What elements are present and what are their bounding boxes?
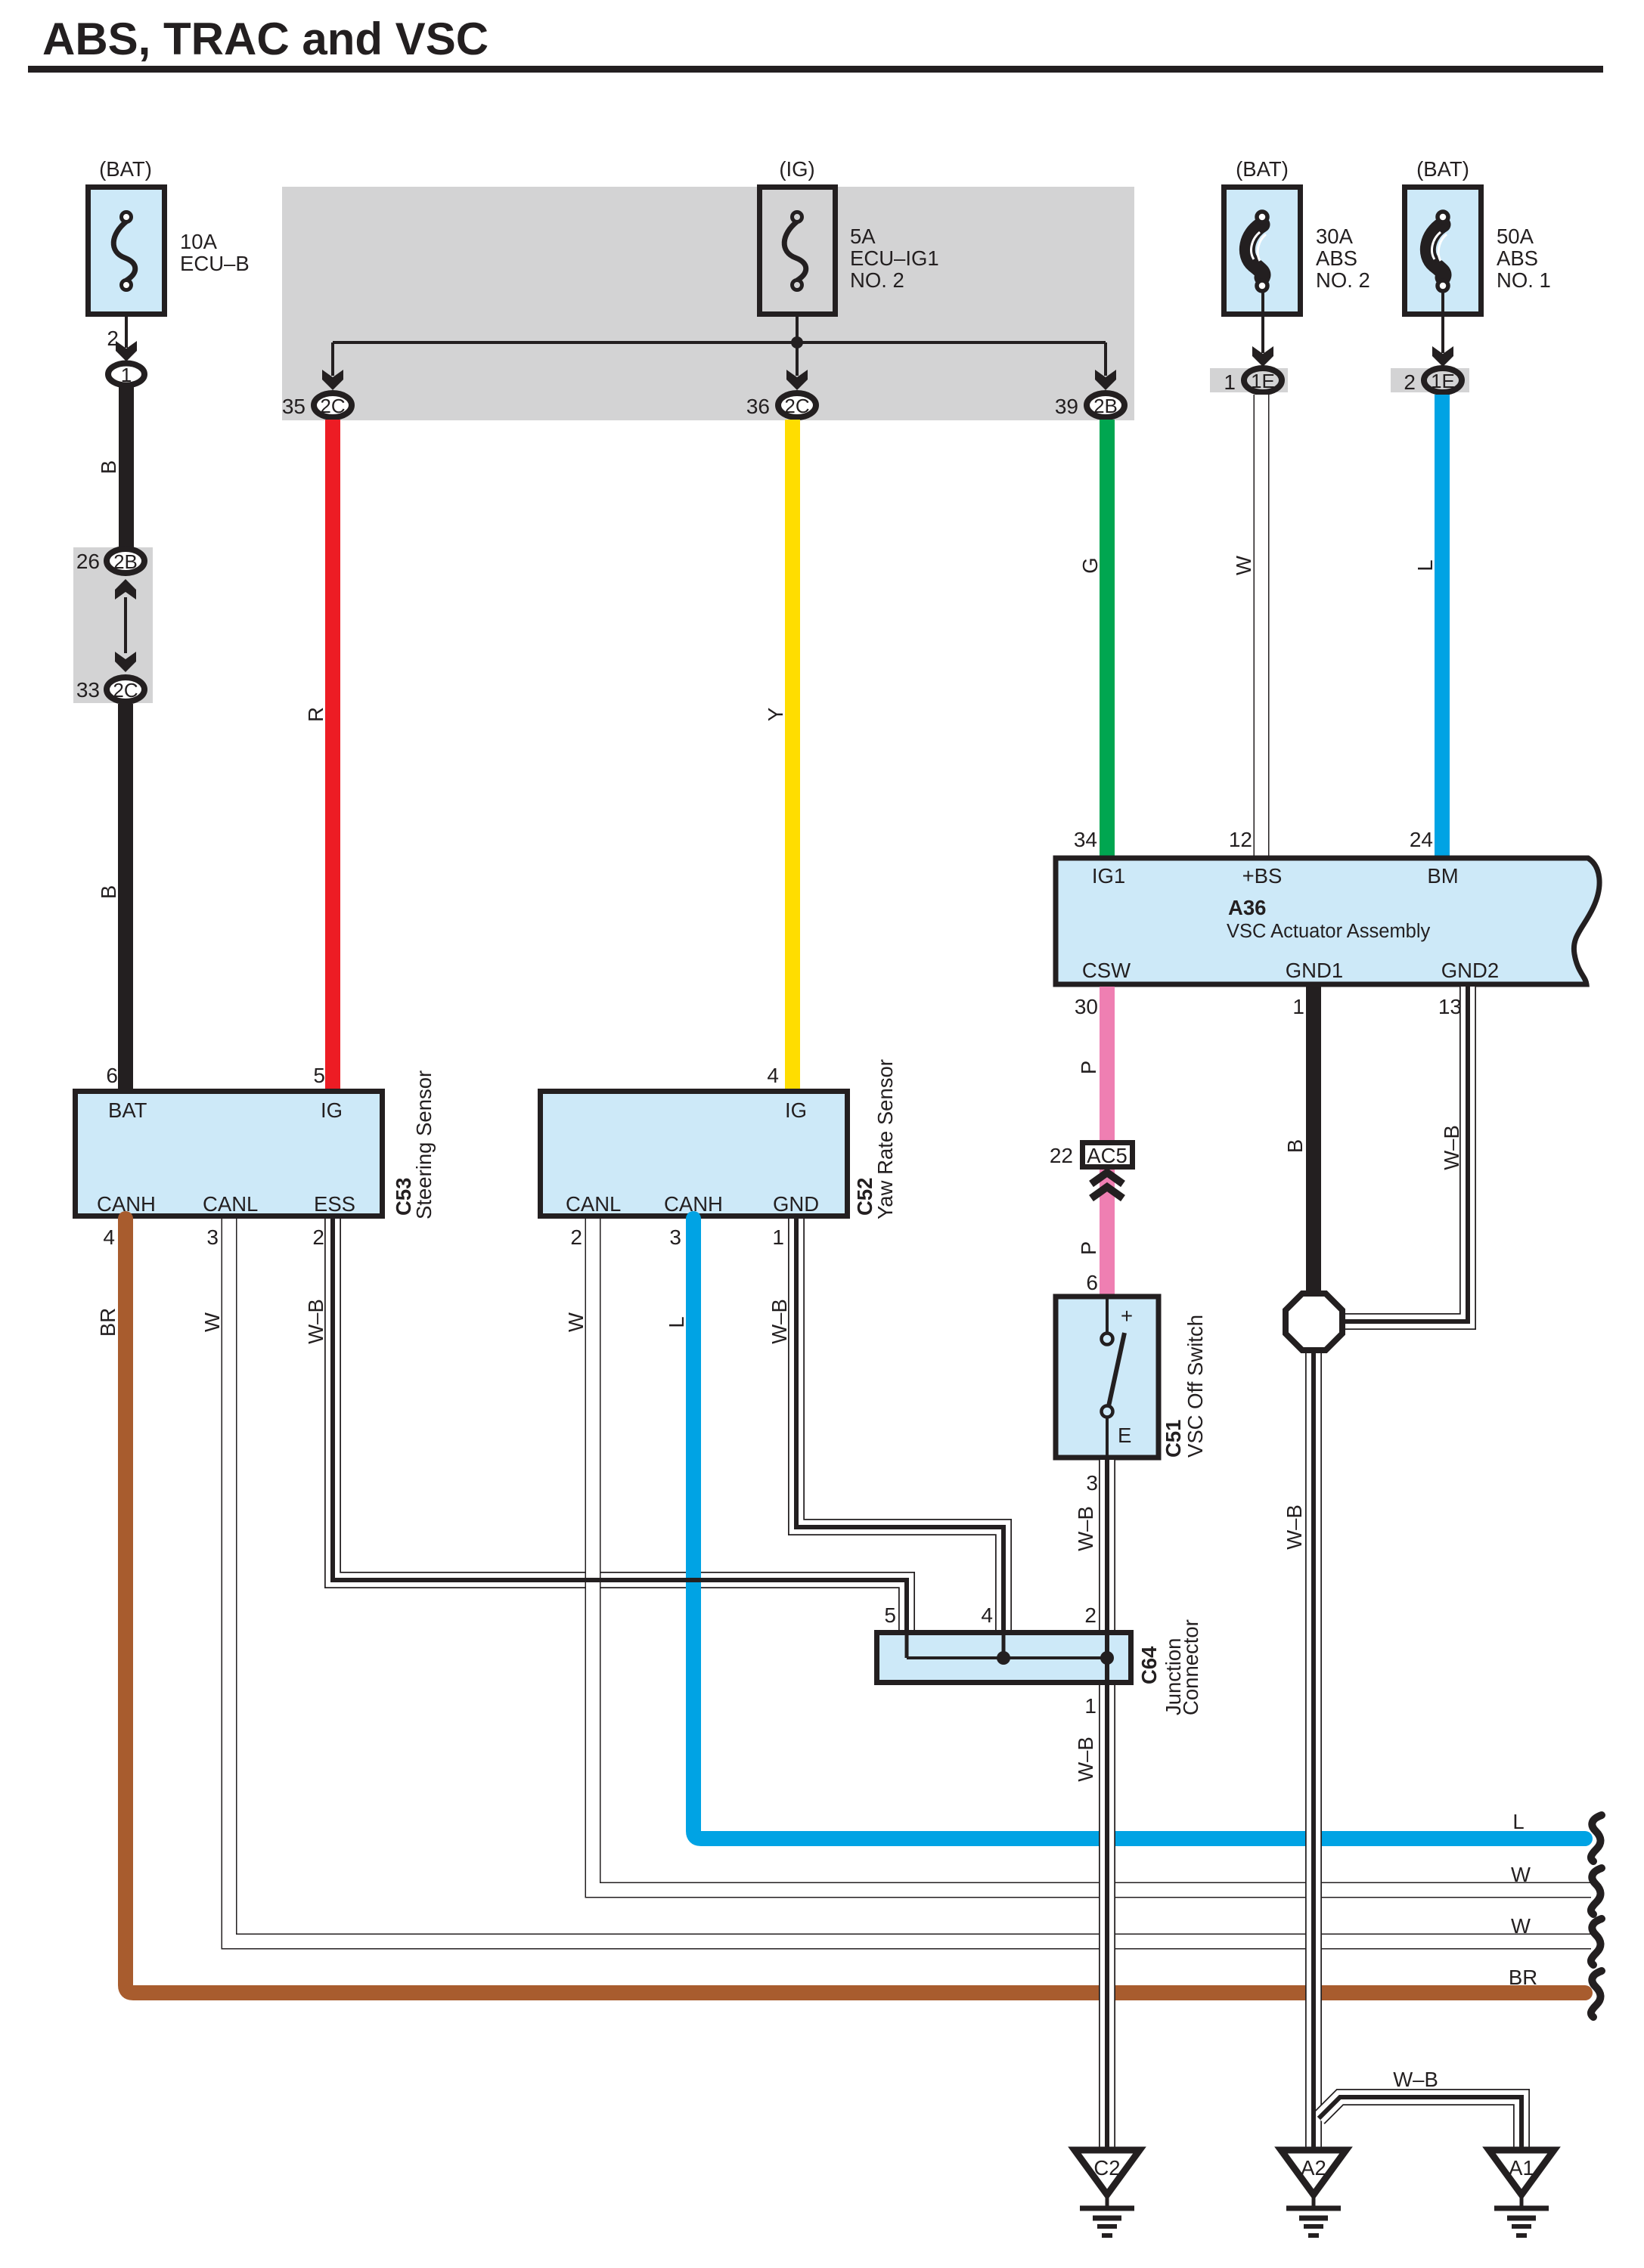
svg-text:3: 3 bbox=[1086, 1471, 1098, 1495]
svg-text:W–B: W–B bbox=[1074, 1737, 1097, 1782]
fusible link 30A ABS NO.2 bbox=[1224, 187, 1301, 314]
svg-text:5A: 5A bbox=[850, 225, 876, 248]
svg-text:R: R bbox=[304, 707, 327, 722]
connector 2B (ellipse) bbox=[107, 549, 144, 573]
re-stroke W-B centers over crossings bbox=[333, 1578, 907, 1582]
svg-text:2: 2 bbox=[312, 1225, 324, 1249]
svg-text:P: P bbox=[1077, 1241, 1100, 1255]
svg-text:W–B: W–B bbox=[1074, 1506, 1097, 1551]
svg-text:W: W bbox=[564, 1312, 588, 1332]
svg-text:39: 39 bbox=[1055, 395, 1078, 418]
svg-text:4: 4 bbox=[981, 1603, 993, 1627]
break squiggle on L bus bbox=[1591, 1815, 1602, 1861]
wire W from C52 CANL to right edge (W bus 1) bbox=[593, 1219, 1591, 1890]
switch C51 VSC Off Switch bbox=[1056, 1297, 1159, 1458]
fusible link 50A ABS NO.1 bbox=[1405, 187, 1481, 314]
svg-text:1: 1 bbox=[1224, 370, 1236, 394]
svg-text:22: 22 bbox=[1050, 1144, 1073, 1167]
arrow into 35 2C bbox=[322, 370, 343, 390]
svg-text:35: 35 bbox=[282, 395, 306, 418]
svg-text:30: 30 bbox=[1075, 995, 1098, 1018]
connector AC5 bbox=[1083, 1143, 1133, 1168]
svg-text:(IG): (IG) bbox=[779, 157, 814, 181]
wire W-B from C51 to C64 pin 2 bbox=[1099, 1460, 1115, 1630]
svg-text:B: B bbox=[1283, 1139, 1307, 1153]
svg-text:2B: 2B bbox=[1093, 395, 1118, 417]
connector 39 2B (ellipse) bbox=[1087, 393, 1124, 417]
svg-text:W–B: W–B bbox=[304, 1299, 327, 1344]
svg-text:1: 1 bbox=[121, 364, 132, 386]
gray highlight behind connectors 2B/2C bbox=[73, 547, 153, 703]
arrow into 36 2C bbox=[786, 370, 808, 390]
svg-text:BR: BR bbox=[1509, 1966, 1537, 1989]
svg-text:5: 5 bbox=[313, 1064, 325, 1087]
svg-text:AC5: AC5 bbox=[1087, 1144, 1128, 1167]
fuse 10A ECU-B bbox=[88, 187, 165, 314]
svg-text:L: L bbox=[1413, 559, 1437, 571]
svg-text:W: W bbox=[200, 1312, 224, 1332]
svg-text:L: L bbox=[665, 1316, 688, 1328]
break squiggle on W bus (upper) bbox=[1591, 1868, 1602, 1914]
svg-text:A2: A2 bbox=[1301, 2156, 1326, 2180]
svg-text:A36: A36 bbox=[1228, 896, 1266, 919]
wire W from C53 CANL to right edge (W bus 2) bbox=[229, 1219, 1591, 1941]
wire from fuse 10A to connector 1 bbox=[125, 317, 128, 348]
sensor C52 Yaw Rate Sensor bbox=[541, 1092, 848, 1216]
svg-text:ABS, TRAC and VSC: ABS, TRAC and VSC bbox=[42, 14, 489, 64]
svg-text:4: 4 bbox=[767, 1064, 779, 1087]
connector 36 2C (ellipse) bbox=[778, 393, 816, 417]
arrow into 39 2B bbox=[1095, 370, 1116, 390]
svg-text:2C: 2C bbox=[113, 679, 138, 702]
svg-text:24: 24 bbox=[1410, 828, 1433, 851]
svg-text:IG: IG bbox=[321, 1098, 343, 1122]
wire L (blue) from 1E to A36 BM bbox=[1435, 395, 1450, 858]
svg-text:W–B: W–B bbox=[1440, 1125, 1463, 1170]
svg-text:P: P bbox=[1077, 1061, 1100, 1074]
wire G (green) from 39 2B to A36 IG1 bbox=[1100, 420, 1115, 858]
wire R (red) from 35 2C to C53 IG bbox=[325, 420, 340, 1089]
svg-text:30A: 30A bbox=[1316, 225, 1354, 248]
svg-text:6: 6 bbox=[1086, 1271, 1098, 1294]
svg-text:26: 26 bbox=[76, 550, 100, 573]
svg-text:2: 2 bbox=[570, 1225, 582, 1249]
wire W-B from A36 GND2 to junction bbox=[1345, 987, 1468, 1321]
svg-text:50A: 50A bbox=[1497, 225, 1534, 248]
svg-text:Steering Sensor: Steering Sensor bbox=[412, 1070, 436, 1219]
svg-text:(BAT): (BAT) bbox=[99, 157, 152, 181]
svg-text:BR: BR bbox=[96, 1308, 119, 1337]
svg-text:2B: 2B bbox=[113, 550, 138, 573]
svg-text:A1: A1 bbox=[1509, 2156, 1534, 2180]
wire L (blue) from C52 CANH to right edge bbox=[693, 1219, 1585, 1839]
connector 1E (right, ellipse) bbox=[1424, 368, 1462, 392]
svg-text:33: 33 bbox=[76, 678, 100, 702]
svg-text:NO. 1: NO. 1 bbox=[1497, 268, 1551, 292]
svg-text:2: 2 bbox=[1404, 370, 1416, 394]
wire W-B branch to ground A1 bbox=[1314, 2094, 1521, 2148]
fuse 5A ECU-IG1 NO.2 bbox=[760, 187, 836, 314]
arrow down into 2C bbox=[115, 652, 136, 672]
title rule bbox=[28, 66, 1603, 73]
svg-text:10A: 10A bbox=[180, 230, 218, 253]
ground A2 bbox=[1281, 2150, 1346, 2235]
svg-text:3: 3 bbox=[206, 1225, 219, 1249]
svg-text:2C: 2C bbox=[320, 395, 345, 417]
svg-text:GND: GND bbox=[773, 1192, 819, 1216]
arrow into 1E (right) bbox=[1432, 346, 1453, 367]
svg-text:W–B: W–B bbox=[1393, 2068, 1438, 2091]
svg-text:2: 2 bbox=[1084, 1603, 1097, 1627]
svg-text:IG: IG bbox=[785, 1098, 807, 1122]
wire between 2B and 2C bbox=[124, 597, 127, 653]
svg-text:CSW: CSW bbox=[1082, 959, 1131, 982]
svg-text:W–B: W–B bbox=[1283, 1504, 1306, 1550]
stem to connector 39 2B bbox=[1104, 342, 1107, 376]
svg-text:B: B bbox=[97, 460, 120, 474]
svg-text:E: E bbox=[1118, 1424, 1131, 1447]
break squiggle on W bus (lower) bbox=[1591, 1919, 1602, 1965]
svg-text:6: 6 bbox=[106, 1064, 118, 1087]
splice junction (octagon) bbox=[1286, 1294, 1342, 1350]
wire P (pink) from A36 CSW to AC5 bbox=[1100, 987, 1115, 1143]
wire W-B from C52 GND to C64 pin 4 bbox=[796, 1219, 1003, 1630]
svg-text:W: W bbox=[1232, 556, 1255, 575]
svg-text:ABS: ABS bbox=[1316, 246, 1357, 270]
svg-text:B: B bbox=[97, 885, 120, 899]
wire from fuse 50A to 1E bbox=[1441, 291, 1444, 353]
svg-text:(BAT): (BAT) bbox=[1236, 157, 1289, 181]
svg-text:34: 34 bbox=[1074, 828, 1097, 851]
connector 35 2C (ellipse) bbox=[314, 393, 352, 417]
svg-text:12: 12 bbox=[1229, 828, 1252, 851]
svg-text:C2: C2 bbox=[1093, 2156, 1120, 2180]
wire Y (yellow) from 36 2C to C52 IG bbox=[785, 420, 800, 1089]
wire B (black) from connector 1 to 2B bbox=[119, 387, 134, 547]
connector 1 (ellipse) bbox=[108, 364, 144, 387]
svg-text:2C: 2C bbox=[784, 395, 809, 417]
svg-text:Connector: Connector bbox=[1179, 1619, 1202, 1715]
distribution wire from fuse 5A bbox=[796, 317, 799, 376]
svg-text:VSC Off Switch: VSC Off Switch bbox=[1183, 1315, 1207, 1458]
arrow up into 2B bbox=[115, 579, 136, 600]
connector 1E (left, ellipse) bbox=[1244, 368, 1282, 392]
svg-text:ECU–B: ECU–B bbox=[180, 252, 250, 275]
wire from fuse 30A to 1E bbox=[1261, 291, 1264, 353]
arrow into 1E (left) bbox=[1252, 346, 1273, 367]
stem to connector 35 2C bbox=[331, 342, 334, 376]
svg-text:+BS: +BS bbox=[1242, 864, 1283, 888]
svg-text:4: 4 bbox=[103, 1225, 115, 1249]
svg-text:NO. 2: NO. 2 bbox=[1316, 268, 1370, 292]
gray highlight behind connector 1E (left) bbox=[1210, 368, 1288, 392]
svg-text:+: + bbox=[1121, 1304, 1133, 1328]
svg-text:13: 13 bbox=[1438, 995, 1462, 1018]
wire BR (brown) from C53 CANH to right edge bbox=[126, 1219, 1585, 1993]
wire W-B from C64 pin 1 to ground C2 bbox=[1099, 1685, 1115, 2148]
svg-text:W–B: W–B bbox=[768, 1299, 791, 1344]
svg-text:(BAT): (BAT) bbox=[1416, 157, 1469, 181]
svg-text:ECU–IG1: ECU–IG1 bbox=[850, 246, 939, 270]
svg-text:C64: C64 bbox=[1137, 1646, 1161, 1684]
svg-text:IG1: IG1 bbox=[1092, 864, 1125, 888]
svg-text:3: 3 bbox=[669, 1225, 681, 1249]
svg-text:1: 1 bbox=[1084, 1694, 1097, 1718]
wire W-B from C53 ESS to C64 pin 5 bbox=[333, 1219, 907, 1630]
svg-text:CANL: CANL bbox=[203, 1192, 258, 1216]
svg-text:36: 36 bbox=[746, 395, 770, 418]
svg-text:W: W bbox=[1511, 1914, 1531, 1938]
wire B (black) from A36 GND1 to junction bbox=[1306, 987, 1321, 1297]
ECU A36 VSC Actuator Assembly bbox=[1056, 858, 1599, 984]
svg-text:BAT: BAT bbox=[108, 1098, 147, 1122]
junction connector C64 bbox=[877, 1630, 1131, 1685]
svg-text:G: G bbox=[1078, 557, 1102, 573]
svg-text:GND2: GND2 bbox=[1441, 959, 1499, 982]
junction dot at fuse 5A bbox=[791, 336, 803, 349]
svg-text:ABS: ABS bbox=[1497, 246, 1538, 270]
svg-text:1E: 1E bbox=[1251, 370, 1275, 392]
ground C2 bbox=[1075, 2150, 1140, 2235]
svg-text:GND1: GND1 bbox=[1286, 959, 1343, 982]
svg-text:Y: Y bbox=[764, 708, 787, 721]
sensor C53 Steering Sensor bbox=[76, 1092, 383, 1216]
svg-text:L: L bbox=[1512, 1810, 1524, 1833]
break squiggle on BR bus bbox=[1591, 1971, 1602, 2017]
wire P (pink) from AC5 to C51 bbox=[1100, 1170, 1115, 1296]
wire W-B from junction to ground A2 bbox=[1305, 1350, 1322, 2148]
svg-text:NO. 2: NO. 2 bbox=[850, 268, 904, 292]
gray highlight behind connector 1E (right) bbox=[1391, 368, 1469, 392]
arrow into connector 1 bbox=[116, 341, 137, 361]
connector 2C (ellipse) bbox=[107, 677, 144, 702]
svg-text:1E: 1E bbox=[1431, 370, 1455, 392]
svg-text:VSC Actuator Assembly: VSC Actuator Assembly bbox=[1227, 921, 1431, 942]
distribution bus horizontal bbox=[333, 341, 1106, 344]
svg-text:Yaw Rate Sensor: Yaw Rate Sensor bbox=[873, 1059, 897, 1219]
svg-text:5: 5 bbox=[884, 1603, 896, 1627]
svg-text:W: W bbox=[1511, 1863, 1531, 1886]
gray power-distribution region bbox=[282, 187, 1134, 420]
svg-text:1: 1 bbox=[772, 1225, 784, 1249]
ground A1 bbox=[1489, 2150, 1554, 2235]
svg-text:CANL: CANL bbox=[566, 1192, 621, 1216]
svg-text:1: 1 bbox=[1292, 995, 1304, 1018]
wire B (black) from 2C to C53 BAT bbox=[118, 704, 133, 1089]
wire W from 1E to A36 +BS bbox=[1254, 395, 1270, 858]
svg-text:BM: BM bbox=[1427, 864, 1458, 888]
chevron pass-through marks below AC5 bbox=[1091, 1173, 1123, 1198]
svg-text:ESS: ESS bbox=[314, 1192, 355, 1216]
svg-text:C51: C51 bbox=[1162, 1420, 1185, 1458]
